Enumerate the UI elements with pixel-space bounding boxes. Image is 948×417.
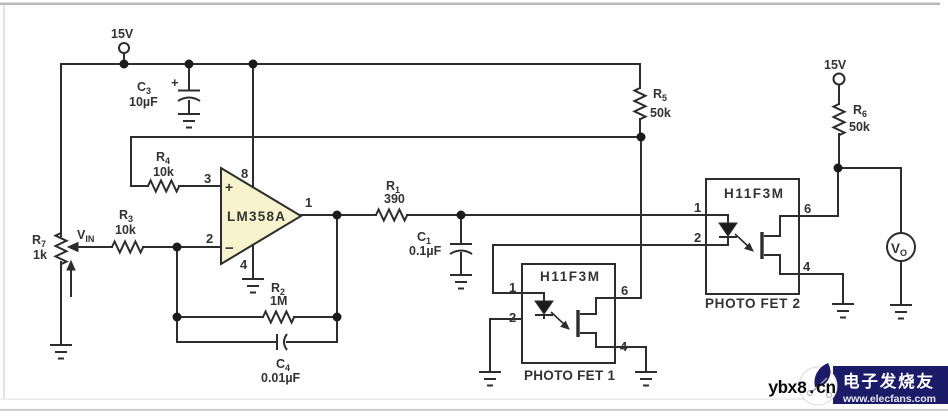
supply 15V right terminal [824, 58, 847, 85]
svg-text:H11F3M: H11F3M [724, 186, 783, 201]
svg-text:PHOTO FET 2: PHOTO FET 2 [705, 296, 800, 311]
supply 15V left terminal [111, 27, 134, 53]
label R5 value [650, 87, 671, 120]
optocoupler U2 H11F3M photo fet 1 box [522, 264, 615, 363]
svg-text:www.elecfans.com: www.elecfans.com [842, 393, 936, 405]
wire node B down to photo fet 2 pin 6 [799, 168, 838, 216]
svg-text:6: 6 [804, 201, 811, 216]
ground photo fet 2 pin 4 [832, 304, 854, 318]
wire photo fet 1 pin 4 to ground [615, 347, 646, 371]
op-amp U1 LM358A [221, 168, 301, 264]
label R6 value [849, 103, 870, 134]
photo fet 2 FET Q2 [762, 216, 799, 274]
wire op-amp output [301, 214, 376, 216]
svg-text:50k: 50k [650, 106, 671, 120]
svg-text:4: 4 [240, 257, 248, 272]
wire 15V left stub [123, 53, 125, 64]
resistor R4 [148, 181, 179, 192]
svg-text:1k: 1k [33, 248, 47, 262]
wire R5 top [639, 64, 641, 88]
wire C4 branch left [177, 341, 276, 343]
wire node A vertical [176, 247, 178, 342]
svg-text:+: + [171, 75, 179, 90]
wire R4 left vertical [130, 137, 132, 186]
svg-text:15V: 15V [111, 27, 134, 41]
svg-text:0.1µF: 0.1µF [409, 244, 442, 258]
svg-text:LM358A: LM358A [227, 209, 285, 224]
photo fet 2 emission arrow [735, 234, 753, 251]
wire R5 bottom [639, 119, 641, 137]
wire C1 top stub [460, 215, 462, 243]
junction dot R2 right [333, 313, 342, 322]
wire R3 to node A [143, 246, 221, 248]
wire C1 bottom to ground [460, 253, 462, 274]
photo fet 1 LED [522, 293, 553, 319]
wire photo fet 2 pin 2 line [493, 244, 706, 246]
resistor R5 [635, 88, 646, 119]
wire R4 right to op-amp [179, 185, 221, 187]
photo fet 1 FET Q1 [578, 298, 615, 347]
ground op-amp pin 4 [242, 279, 264, 293]
svg-text:1: 1 [305, 195, 312, 210]
svg-text:1: 1 [694, 200, 701, 215]
wire photo fet 1 pin 2 to ground [490, 319, 522, 371]
optocoupler U3 H11F3M photo fet 2 box [706, 179, 799, 294]
svg-text:2: 2 [694, 230, 701, 245]
potentiometer R7 [56, 233, 67, 344]
ground Vo [890, 305, 912, 319]
junction dot R5 node [637, 133, 646, 142]
ground C1 [450, 275, 472, 289]
junction dot C1 node [457, 211, 466, 220]
photo fet 2 LED [706, 215, 737, 245]
label R7 value [32, 233, 47, 262]
wire op-amp pin 4 to ground [252, 245, 254, 278]
wire 15V right stub [838, 85, 840, 104]
voltmeter Vo [887, 233, 915, 261]
svg-text:PHOTO FET 1: PHOTO FET 1 [524, 368, 615, 383]
capacitor C1 [450, 244, 472, 254]
svg-text:15V: 15V [824, 58, 847, 72]
ground photo fet 1 pin 4 [635, 372, 657, 386]
watermark elecfans block [833, 366, 948, 405]
wire op-amp pin 8 vertical [252, 64, 254, 187]
svg-text:10k: 10k [115, 223, 136, 237]
ground photo fet 1 pin 2 [479, 372, 501, 386]
svg-text:1M: 1M [270, 294, 287, 308]
label C4 value [261, 357, 301, 385]
wire long vertical to photo fet 1 pin 6 [615, 137, 641, 298]
node VIN label [77, 228, 94, 244]
junction dot node B [834, 164, 843, 173]
label R4 value [153, 150, 174, 179]
svg-text:1: 1 [509, 280, 516, 295]
resistor R1 [376, 210, 407, 221]
svg-text:10k: 10k [153, 165, 174, 179]
resistor R2 [263, 312, 294, 323]
junction dot node A [173, 243, 182, 252]
svg-text:50k: 50k [849, 120, 870, 134]
ground R7 [50, 345, 72, 359]
wire left vertical to R7 [60, 64, 62, 236]
junction dot R2 left [173, 313, 182, 322]
junction dot rail-C3 [185, 60, 194, 69]
svg-text:8: 8 [241, 166, 248, 181]
wire R4 to pin 3 [131, 185, 148, 187]
wire R2 feedback left [177, 316, 263, 318]
capacitor C4 [277, 334, 287, 350]
svg-text:−: − [225, 240, 234, 257]
svg-text:ybx8.cn: ybx8.cn [768, 379, 836, 399]
svg-text:电子发烧友: 电子发烧友 [843, 371, 934, 391]
svg-text:3: 3 [204, 171, 211, 186]
ground C3 [178, 114, 200, 128]
svg-text:H11F3M: H11F3M [540, 269, 599, 284]
wire C3 bottom to ground [188, 101, 190, 113]
junction dot output [333, 211, 342, 220]
resistor R6 [834, 104, 845, 135]
wire R2 feedback right [294, 316, 337, 318]
svg-text:+: + [225, 179, 233, 195]
wire top supply rail [61, 63, 640, 65]
label C3 value [129, 80, 158, 109]
svg-text:4: 4 [620, 339, 628, 354]
wire R6 bottom to node B [838, 134, 840, 168]
wire C4 branch right [287, 341, 337, 343]
svg-text:10µF: 10µF [129, 95, 158, 109]
wire node B to Vo [838, 168, 901, 233]
wire feedback right vertical [336, 215, 338, 342]
junction dot rail-pin8 [249, 60, 258, 69]
label R3 value [115, 208, 136, 237]
frame (decorative) [0, 3, 940, 6]
wire photo fet 2 pin 4 to ground [799, 274, 843, 303]
wire output to photo fet 2 pin 1 [461, 214, 706, 216]
svg-text:2: 2 [509, 310, 516, 325]
label R1 value [384, 179, 405, 206]
wire R4 feedback horizontal [131, 136, 641, 138]
wire pin2 line down to photo fet 1 pin 1 [493, 245, 522, 293]
svg-text:2: 2 [206, 231, 213, 246]
photo fet 1 emission arrow [551, 312, 569, 329]
resistor R3 [112, 242, 143, 253]
wire Vo bottom to ground [900, 261, 902, 304]
svg-text:6: 6 [621, 283, 628, 298]
potentiometer adjust arrow [67, 261, 75, 297]
wire R7 wiper to R3 [70, 246, 112, 248]
label C1 value [409, 230, 442, 258]
svg-text:390: 390 [384, 192, 405, 206]
potentiometer R7 wiper arrow [68, 243, 78, 252]
label R2 value [270, 281, 287, 308]
svg-text:4: 4 [803, 259, 811, 274]
svg-text:0.01µF: 0.01µF [261, 371, 301, 385]
watermark leaf logo [799, 363, 837, 405]
wire R1 to C1 node [407, 214, 461, 216]
capacitor C3 [171, 75, 200, 101]
junction dot rail-15V [120, 60, 129, 69]
wire C3 top stub [188, 64, 190, 90]
